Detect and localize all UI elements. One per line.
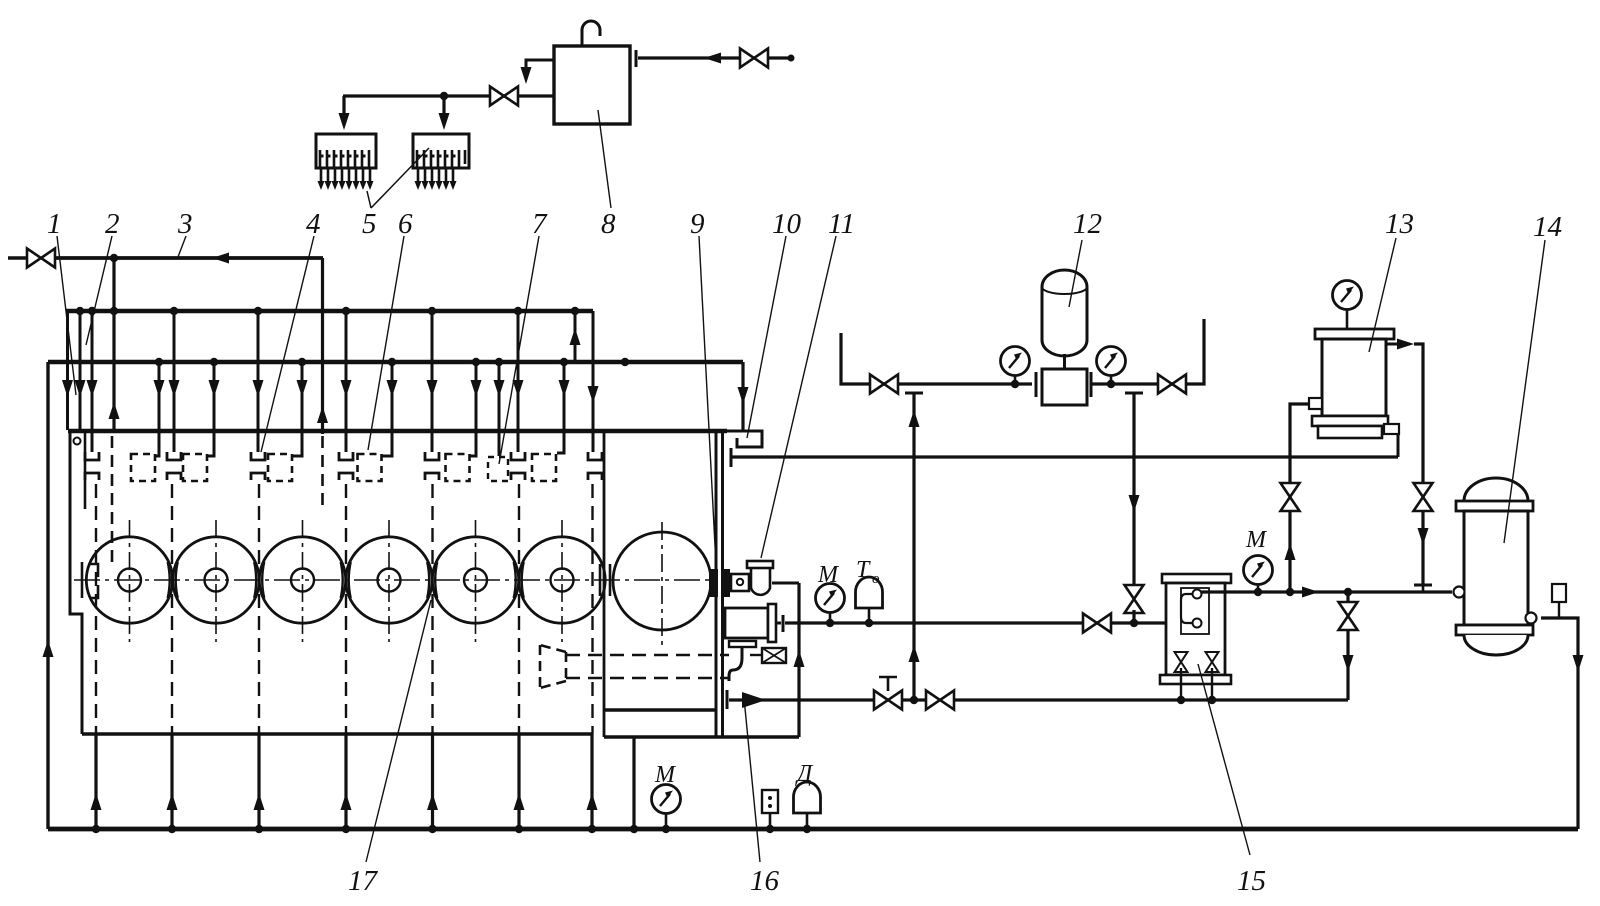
wire manifold A right corner drop to bearing 7 xyxy=(592,311,595,452)
pump 16 body xyxy=(725,608,768,638)
valve on filter bypass xyxy=(1414,483,1433,511)
arrow down x258 xyxy=(253,380,264,397)
node A x518 xyxy=(514,307,522,315)
sump riser 5 xyxy=(431,734,434,829)
sprayer manifold 1 (item 5) xyxy=(316,134,376,190)
wire drop to sprayer 1 xyxy=(342,96,345,114)
arrow down filter bypass xyxy=(1418,528,1429,545)
wire manifold A xyxy=(66,309,593,313)
cylinder 1 crank circle xyxy=(86,537,172,623)
wire riser x322 dashed inside engine xyxy=(321,436,324,506)
wire drop x346 to main bearing 4 xyxy=(345,311,348,452)
svg-text:о: о xyxy=(872,571,880,587)
crank journal lens 3-4 xyxy=(341,562,351,598)
valve on discharge line xyxy=(1083,614,1111,633)
flange end of bypass xyxy=(1414,584,1432,587)
svg-text:3: 3 xyxy=(177,208,193,240)
wire drop x159 hooked to rod bearing box 1 xyxy=(154,362,159,456)
node drain branch xyxy=(1344,588,1352,596)
arrow into sprayer 1 xyxy=(339,113,350,130)
svg-text:Д: Д xyxy=(795,761,814,787)
bearing drain dashed 6 xyxy=(518,484,520,734)
wire pump 9 suction jog xyxy=(772,582,799,585)
svg-text:16: 16 xyxy=(750,865,780,897)
arrow down x174 xyxy=(169,380,180,397)
pump 9 top fitting xyxy=(747,561,773,568)
main bearing bracket 2 xyxy=(167,452,181,480)
arrow down x80 xyxy=(75,380,86,397)
wire tank 12 left pipe xyxy=(841,333,1032,384)
heat exchanger 15 top flange xyxy=(1162,574,1231,583)
drain cock right inside 15 xyxy=(1206,652,1219,672)
T-handle valve on vent line xyxy=(874,691,902,710)
valve on drain branch xyxy=(1339,602,1358,630)
svg-text:М: М xyxy=(654,762,677,788)
svg-text:М: М xyxy=(817,562,840,588)
node A x174 xyxy=(170,307,178,315)
engine block bottom edge xyxy=(82,732,592,736)
svg-text:11: 11 xyxy=(828,208,855,240)
node B x476 xyxy=(472,358,480,366)
arrow down tank outlet xyxy=(1573,655,1584,672)
wire filter top outlet xyxy=(1386,343,1410,346)
arrow down x214 xyxy=(209,380,220,397)
bearing drain dashed 4 xyxy=(345,484,347,734)
sprayer manifold 2 (item 5) xyxy=(413,134,469,190)
arrow down x346 xyxy=(341,380,352,397)
arrow up filter riser xyxy=(1285,543,1296,560)
flywheel xyxy=(613,532,711,630)
sump riser 3 xyxy=(257,734,260,829)
bearing drain dashed 3 xyxy=(258,484,260,734)
arrow up suction riser xyxy=(794,650,805,667)
cover tab bracket item 10 xyxy=(727,431,762,447)
rod bearing box 6 xyxy=(532,454,556,481)
gauge M on discharge line xyxy=(816,584,845,613)
flange at return line start xyxy=(730,448,733,467)
cylinder 3 centerline xyxy=(302,520,304,642)
svg-text:Т: Т xyxy=(856,557,871,583)
arrow flow left on line 3 xyxy=(212,253,229,264)
bearing drain dashed 1 xyxy=(95,484,97,734)
svg-text:8: 8 xyxy=(601,208,616,240)
sump riser 7 xyxy=(590,734,593,829)
wire drop x214 hooked to rod bearing box 2 xyxy=(206,362,214,456)
wire riser x114 dashed inside engine xyxy=(111,436,114,562)
cylinder 2 centerline xyxy=(215,520,217,642)
arrow down x302 xyxy=(297,380,308,397)
inlet flange at box 8 right xyxy=(635,50,638,67)
flywheel centerline xyxy=(661,522,663,645)
main bearing bracket 3 xyxy=(251,452,265,480)
heat exchanger 15 bottom flange xyxy=(1160,675,1231,684)
filter 13 body xyxy=(1322,339,1386,416)
svg-text:5: 5 xyxy=(362,208,377,240)
valve on tank 12 right drop xyxy=(1125,585,1144,613)
arrow down x593 xyxy=(588,386,599,403)
wire drop x392 hooked to rod bearing box 4 xyxy=(381,362,392,456)
node B x302 xyxy=(298,358,306,366)
flange left of base box xyxy=(1035,372,1038,397)
node sprayer junction xyxy=(440,92,448,100)
filter 13 tray right nub xyxy=(1384,424,1399,434)
wire drop x476 hooked to rod bearing box 5 xyxy=(469,362,476,456)
sump riser 6 xyxy=(517,734,520,829)
svg-text:9: 9 xyxy=(690,208,705,240)
small bearing box 7 xyxy=(488,457,508,481)
wire tank 14 outlet xyxy=(1541,618,1578,829)
node vent/tank riser xyxy=(910,696,918,704)
wire pump 16 discharge stub xyxy=(776,622,781,625)
box 8 overflow outlet xyxy=(526,60,554,72)
arrow into sprayer 2 xyxy=(439,113,450,130)
crank journal lens 1-2 xyxy=(168,562,178,598)
wire drop x174 to main bearing 2 xyxy=(173,311,176,452)
front end bearing bars xyxy=(82,562,98,598)
node A x114 xyxy=(110,307,118,315)
drain cock left inside 15 xyxy=(1175,652,1188,672)
arrow up x575 xyxy=(570,328,581,345)
tank 14 right nub xyxy=(1526,613,1537,624)
pump 9 shaft coupling hatched xyxy=(709,569,718,597)
tank 14 body xyxy=(1464,511,1528,625)
wire cooled oil line y592 xyxy=(1201,590,1452,593)
node B x392 xyxy=(388,358,396,366)
node A x258 xyxy=(254,307,262,315)
svg-text:М: М xyxy=(1245,527,1268,553)
pump 16 right flange xyxy=(768,604,776,642)
flywheel housing divider wall xyxy=(603,431,606,710)
arrow down at x69 xyxy=(62,380,73,397)
flange right of base box xyxy=(1090,372,1093,397)
valve on sprayer line xyxy=(490,87,518,106)
wire drop x432 to main bearing 5 xyxy=(431,311,434,452)
arrow down x743 xyxy=(738,387,749,404)
pump 16 suction flange xyxy=(729,641,756,647)
wire riser x322 from line 3 xyxy=(321,258,324,434)
wire return line y457 from cover tab to filter 13 xyxy=(731,455,1398,458)
arrow down x392 xyxy=(387,380,398,397)
heat exchanger tube bundle xyxy=(1181,594,1196,623)
oil suction bell dashed xyxy=(540,645,566,688)
vent hook on box 8 xyxy=(582,21,600,46)
crank journal lens 4-5 xyxy=(427,562,437,598)
main bearing bracket 7 xyxy=(588,452,602,480)
node B x159 xyxy=(155,358,163,366)
arrow down x92 xyxy=(87,380,98,397)
gauge left of tank 12 xyxy=(1001,347,1030,376)
node line3 / riser 114 xyxy=(110,254,118,262)
suction channel dashed bottom xyxy=(566,677,729,680)
wire drop x258 to main bearing 3 xyxy=(257,311,260,452)
pan drain corner piece xyxy=(603,710,606,737)
svg-text:7: 7 xyxy=(532,208,548,240)
wire cover right edge drop x743 xyxy=(741,362,744,430)
svg-text:14: 14 xyxy=(1533,211,1562,243)
node A x575 riser xyxy=(571,307,579,315)
cylinder 2 crank circle xyxy=(173,537,259,623)
left inner gallery line xyxy=(84,431,87,509)
arrow down x518 xyxy=(513,380,524,397)
node B x625 xyxy=(621,358,629,366)
node B x214 xyxy=(210,358,218,366)
bearing drain dashed 2 xyxy=(171,484,173,734)
wire tray nub to return line xyxy=(1397,434,1400,457)
arrow down x499 xyxy=(494,380,505,397)
svg-text:1: 1 xyxy=(47,208,62,240)
arrow down x432 xyxy=(427,380,438,397)
wire drop x499 to small box 7 xyxy=(498,362,501,456)
arrow flow left into box 8 xyxy=(704,53,721,64)
main bearing bracket 6 xyxy=(511,452,525,480)
wire relief valve stub xyxy=(750,654,762,656)
main bearing bracket 5 xyxy=(425,452,439,480)
wire main bottom oil line xyxy=(48,827,1578,832)
rod bearing box 1 xyxy=(131,454,155,481)
filter 13 left nub xyxy=(1309,398,1322,409)
tank 14 bottom flange xyxy=(1456,625,1533,635)
cylinder 1 centerline xyxy=(129,520,131,642)
relief valve box xyxy=(762,648,786,663)
filter 13 bottom tray xyxy=(1312,416,1388,426)
wire drop x518 to main bearing 6 xyxy=(517,311,520,452)
node A x80 xyxy=(76,307,84,315)
node riser to filter xyxy=(1286,588,1294,596)
rod bearing box 3 xyxy=(268,454,292,481)
engine block left wall stepped xyxy=(70,431,82,734)
crank journal lens 2-3 xyxy=(254,562,264,598)
svg-text:6: 6 xyxy=(398,208,413,240)
bearing drain dashed 7 xyxy=(591,484,593,734)
svg-text:13: 13 xyxy=(1385,208,1414,240)
wire drain branch x1348 xyxy=(1346,592,1349,700)
tank 12 expansion vessel xyxy=(1042,270,1087,356)
wire riser x114 xyxy=(112,258,115,432)
wire drop x302 hooked to rod bearing box 3 xyxy=(291,362,302,456)
main bearing bracket 4 xyxy=(339,452,353,480)
wire left supply downpipe x48 xyxy=(46,362,49,829)
arrow up left downpipe xyxy=(43,640,54,657)
node A x346 xyxy=(342,307,350,315)
svg-text:10: 10 xyxy=(772,208,802,240)
pump 9 body xyxy=(731,574,749,591)
pump 16 discharge flange xyxy=(782,615,785,632)
sump riser 4 xyxy=(344,734,347,829)
wire suction riser x799 xyxy=(797,583,800,737)
wire box 8 to sprayers xyxy=(343,94,554,97)
svg-text:2: 2 xyxy=(105,208,120,240)
svg-text:4: 4 xyxy=(306,208,321,240)
suction channel dashed top xyxy=(566,654,729,657)
wire drop to sprayer 2 xyxy=(442,96,445,114)
arrow right on cooled line xyxy=(1302,587,1319,598)
main bearing bracket 1 xyxy=(85,452,99,480)
wire rocker line 3 xyxy=(55,256,323,260)
wire filter left outlet to riser xyxy=(1290,404,1309,592)
tank 14 left nub xyxy=(1454,587,1465,598)
tank 14 top flange xyxy=(1456,501,1533,511)
cylinder 3 crank circle xyxy=(259,537,345,623)
engine block top edge xyxy=(68,429,727,433)
wire drop x564 to box6 hook xyxy=(557,362,564,453)
tank 14 top dome xyxy=(1464,478,1528,501)
pipe end blob xyxy=(788,55,795,62)
svg-text:17: 17 xyxy=(348,865,379,897)
arrow down x564 xyxy=(559,380,570,397)
oil pan step bottom xyxy=(604,708,716,712)
node A x92 xyxy=(88,307,96,315)
wire drop x92 to front bearing xyxy=(91,311,94,452)
arrow down x476 xyxy=(471,380,482,397)
rod bearing box 2 xyxy=(183,454,207,481)
pump 16 suction elbow xyxy=(729,647,742,681)
valve on box-8 inlet xyxy=(740,49,768,68)
cylinder 5 crank circle xyxy=(432,537,518,623)
svg-text:15: 15 xyxy=(1237,865,1266,897)
tank 12 base box xyxy=(1042,369,1087,405)
flange at vent line start xyxy=(726,690,729,709)
arrow overflow down xyxy=(521,67,532,84)
crank journal lens 5-6 xyxy=(514,562,524,598)
rod bearing box 5 xyxy=(446,454,470,481)
wire manifold A left end drop xyxy=(66,311,69,430)
valve tank12 left xyxy=(870,375,898,394)
valve tank12 right xyxy=(1158,375,1186,394)
pan drain riser x634 xyxy=(632,737,635,829)
valve 1 at rocker supply line xyxy=(8,256,27,259)
pressure switch box xyxy=(762,790,778,813)
vent fitting on tank outlet xyxy=(1552,584,1566,602)
sump riser 1 xyxy=(94,734,97,829)
node B x564 xyxy=(560,358,568,366)
node A x432 xyxy=(428,307,436,315)
wire manifold B xyxy=(48,360,743,364)
tank 12 stem xyxy=(1063,354,1066,369)
wire tank 12 right pipe xyxy=(1091,319,1204,384)
rod bearing box 4 xyxy=(358,454,382,481)
valve on filter riser xyxy=(1281,483,1300,511)
engine right wall double xyxy=(715,431,718,737)
cylinder 6 crank circle xyxy=(519,537,605,623)
wire inlet pipe to box 8 xyxy=(638,56,791,59)
heat exchanger 15 body xyxy=(1166,583,1225,675)
svg-text:12: 12 xyxy=(1073,208,1102,240)
filter 13 gauge xyxy=(1333,281,1362,310)
sensor dome To on discharge line xyxy=(856,577,883,608)
sump riser 2 xyxy=(170,734,173,829)
arrow right on vent line xyxy=(742,692,766,708)
cylinder 5 centerline xyxy=(475,520,477,642)
crankshaft axis centerline xyxy=(74,579,714,581)
cylinder 4 centerline xyxy=(388,520,390,642)
tank 14 bottom dome xyxy=(1464,635,1528,655)
sensor dome D xyxy=(794,782,821,813)
wire drop x80 xyxy=(79,311,82,430)
wire crankcase vent line y700 xyxy=(729,698,1348,701)
arrow up riser x322 xyxy=(317,406,328,423)
wire riser x575 B to A xyxy=(574,311,577,362)
gauge M after cooler xyxy=(1244,556,1273,585)
wire tank 12 right drop x1134 xyxy=(1132,393,1135,588)
gauge M on bottom line xyxy=(652,785,681,814)
cylinder 4 crank circle xyxy=(346,537,432,623)
filler loop detail xyxy=(74,438,81,445)
gauge right of tank 12 xyxy=(1097,347,1126,376)
arrow down x159 xyxy=(154,380,165,397)
cylinder 6 centerline xyxy=(561,520,563,642)
rear end bearing bars xyxy=(600,564,610,596)
engine bottom right extension to suction riser xyxy=(604,735,799,738)
wire main discharge line y623 xyxy=(785,621,1166,624)
arrow up riser x114 xyxy=(109,402,120,419)
filter 13 top flange xyxy=(1315,329,1394,339)
second valve on vent line xyxy=(926,691,954,710)
lubricator box 8 xyxy=(554,46,630,124)
bearing drain dashed 5 xyxy=(431,484,433,734)
wire tank 12 left riser x914 xyxy=(912,393,915,700)
node B x499 xyxy=(495,358,503,366)
